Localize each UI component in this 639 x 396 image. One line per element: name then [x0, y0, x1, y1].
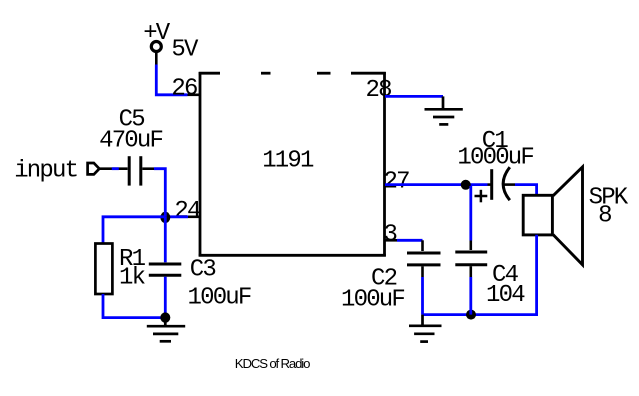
- svg-text:104: 104: [486, 282, 525, 309]
- svg-text:470uF: 470uF: [99, 128, 162, 155]
- svg-text:100uF: 100uF: [188, 285, 251, 312]
- resistor R1: [95, 244, 112, 295]
- wire pin24 node to R1: [103, 217, 165, 244]
- wire C4 branch: [469, 186, 472, 241]
- svg-text:27: 27: [384, 169, 410, 196]
- svg-text:1191: 1191: [262, 147, 314, 174]
- wire input to C5: [99, 167, 127, 170]
- wire C3 to bottom node: [164, 277, 167, 318]
- wire R1 to bottom node: [103, 294, 165, 318]
- terminal +V: [151, 42, 161, 52]
- svg-text:26: 26: [171, 76, 197, 103]
- node junction pin 24: [160, 212, 170, 223]
- capacitor C4: [455, 252, 487, 265]
- svg-text:8: 8: [598, 203, 611, 230]
- node junction pin27/C4: [461, 180, 471, 190]
- svg-text:KDCS of Radio: KDCS of Radio: [235, 356, 310, 371]
- op-amp U1 1191 body: [199, 72, 386, 257]
- svg-text:input: input: [14, 157, 77, 184]
- svg-text:100uF: 100uF: [341, 286, 404, 313]
- svg-text:3: 3: [384, 222, 397, 249]
- capacitor C2: [407, 253, 441, 265]
- wire pin 3 to C2: [385, 239, 397, 242]
- capacitor C5: [129, 156, 141, 185]
- wire pin 27 to C1: [385, 183, 488, 186]
- ground at R1/C3: [147, 318, 185, 342]
- speaker SPK: [523, 195, 552, 235]
- svg-text:C3: C3: [190, 256, 216, 283]
- capacitor C3: [149, 264, 182, 275]
- wire +V to pin 26: [155, 51, 158, 65]
- svg-text:1000uF: 1000uF: [457, 144, 533, 171]
- wire C5 to pin 24 node: [142, 167, 154, 170]
- svg-text:1k: 1k: [119, 264, 146, 291]
- wire pin 24: [188, 216, 200, 219]
- wire C1 to speaker: [505, 183, 516, 186]
- C1 polarity +: [475, 190, 488, 203]
- node junction C4/rail: [466, 310, 476, 320]
- wire pin 28 to ground: [385, 95, 443, 98]
- terminal input: [88, 163, 100, 174]
- capacitor C1: [492, 167, 510, 200]
- svg-text:5V: 5V: [171, 36, 199, 63]
- wire pin24 node to C3: [164, 217, 167, 262]
- ground at C2: [409, 315, 442, 342]
- svg-text:28: 28: [366, 77, 392, 104]
- node junction R1/C3 ground: [160, 312, 170, 322]
- ground at pin 28: [425, 96, 463, 124]
- svg-text:24: 24: [174, 198, 201, 225]
- wire speaker to bottom rail: [423, 235, 537, 315]
